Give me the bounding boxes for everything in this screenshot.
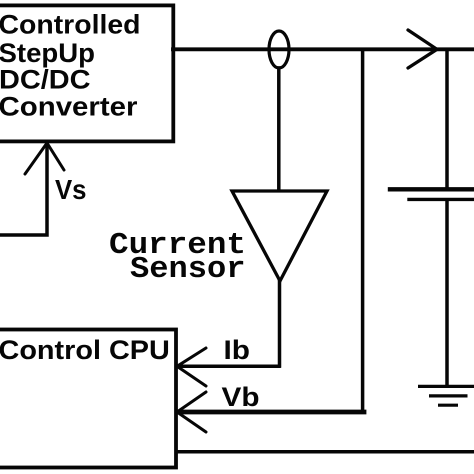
- svg-text:Controlled: Controlled: [0, 10, 141, 40]
- ground: bar 2: [429, 394, 468, 397]
- wire: battery return to CPU: [177, 450, 474, 454]
- svg-text:Converter: Converter: [0, 92, 138, 122]
- block: Controlled StepUp DC/DC Converter: [0, 5, 173, 141]
- block: Control CPU: [0, 330, 176, 468]
- svg-text:StepUp: StepUp: [0, 38, 95, 68]
- svg-text:Sensor: Sensor: [130, 252, 246, 287]
- svg-text:Vb: Vb: [222, 382, 260, 412]
- wire: Vb signal to CPU: [178, 410, 364, 415]
- svg-text:Ib: Ib: [224, 335, 251, 365]
- capacitor: bottom lead: [445, 201, 449, 385]
- wire: Vb tap vertical: [361, 51, 365, 411]
- ground: bar 1: [418, 385, 474, 388]
- current sensor amplifier (triangle): [232, 191, 327, 281]
- arrowhead: Vb into CPU: [177, 392, 206, 432]
- svg-text:Control CPU: Control CPU: [0, 335, 170, 365]
- wire: Vs feedback: [0, 144, 47, 235]
- arrowhead: Ib into CPU: [177, 348, 206, 386]
- ground: bar 3: [438, 404, 458, 407]
- wire: pickup to current sensor: [277, 68, 281, 190]
- capacitor: filter cap top lead: [445, 51, 449, 188]
- capacitor: top plate: [390, 187, 474, 191]
- label: Current Sensor: [109, 228, 246, 287]
- wire: sensor output vertical: [278, 281, 282, 366]
- capacitor: bottom plate: [409, 198, 474, 201]
- svg-text:Vs: Vs: [55, 174, 87, 205]
- wire: Ib signal to CPU: [178, 365, 279, 369]
- arrow: output current direction: [408, 30, 437, 68]
- current sense pickup loop: [269, 31, 289, 68]
- label: Controlled StepUp DC/DC Converter: [0, 10, 141, 122]
- arrowhead: Vs into converter: [25, 143, 64, 174]
- wire: converter output top bus: [173, 47, 474, 51]
- svg-text:DC/DC: DC/DC: [0, 65, 91, 95]
